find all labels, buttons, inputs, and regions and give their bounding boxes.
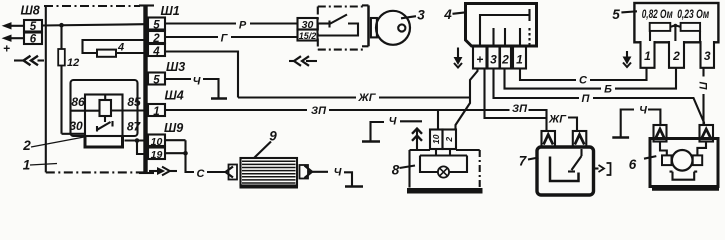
svg-text:ЗП: ЗП (311, 105, 327, 117)
svg-text:85: 85 (127, 95, 141, 109)
svg-text:ЖГ: ЖГ (358, 92, 377, 104)
svg-text:6: 6 (629, 157, 637, 172)
svg-text:Ч: Ч (639, 105, 647, 117)
svg-text:3: 3 (704, 49, 711, 63)
svg-text:0,23 Ом: 0,23 Ом (677, 9, 709, 21)
svg-text:Ч: Ч (193, 76, 201, 88)
svg-text:5: 5 (153, 75, 160, 87)
svg-text:7: 7 (519, 154, 528, 169)
svg-text:5: 5 (612, 7, 620, 22)
svg-text:Ш8: Ш8 (21, 4, 40, 18)
svg-text:3: 3 (490, 53, 497, 67)
svg-text:1: 1 (23, 158, 31, 173)
svg-text:86: 86 (71, 95, 85, 109)
svg-text:5: 5 (153, 20, 160, 32)
svg-text:4: 4 (117, 42, 124, 54)
svg-text:6: 6 (30, 34, 37, 46)
svg-text:Ч: Ч (334, 167, 342, 179)
svg-text:П: П (582, 93, 591, 105)
svg-text:2: 2 (501, 53, 509, 67)
svg-text:П: П (697, 82, 709, 91)
svg-text:10: 10 (431, 134, 441, 144)
svg-text:4: 4 (152, 46, 160, 58)
svg-text:4: 4 (443, 7, 452, 22)
svg-text:15/2: 15/2 (299, 31, 317, 41)
svg-text:3: 3 (417, 8, 425, 23)
svg-text:30: 30 (302, 19, 314, 31)
svg-text:30: 30 (69, 119, 83, 133)
svg-text:2: 2 (152, 33, 160, 45)
svg-text:Ш4: Ш4 (165, 89, 184, 103)
svg-text:ЖГ: ЖГ (548, 114, 567, 126)
svg-text:12: 12 (67, 57, 79, 69)
svg-text:Б: Б (604, 84, 612, 96)
svg-text:2: 2 (672, 49, 680, 63)
svg-text:2: 2 (444, 137, 454, 143)
svg-text:9: 9 (269, 129, 277, 144)
svg-text:Ш9: Ш9 (164, 121, 183, 135)
svg-text:+: + (476, 53, 483, 67)
svg-text:ЗП: ЗП (512, 103, 528, 115)
svg-text:0,82 Ом: 0,82 Ом (642, 9, 673, 21)
svg-text:Г: Г (221, 33, 229, 45)
svg-text:Ш3: Ш3 (166, 60, 185, 74)
svg-text:2: 2 (22, 138, 31, 153)
svg-text:10: 10 (151, 136, 163, 148)
svg-text:19: 19 (151, 149, 163, 161)
svg-text:1: 1 (644, 49, 651, 63)
svg-text:87: 87 (127, 120, 142, 134)
svg-text:5: 5 (30, 21, 37, 33)
svg-text:Ч: Ч (389, 116, 397, 128)
svg-text:8: 8 (392, 163, 400, 178)
svg-text:С: С (579, 75, 588, 87)
svg-text:1: 1 (516, 53, 523, 67)
svg-text:Ш1: Ш1 (161, 4, 180, 18)
svg-text:P: P (239, 20, 247, 32)
svg-text:+: + (3, 42, 10, 56)
svg-text:С: С (197, 168, 206, 180)
svg-text:1: 1 (153, 106, 159, 118)
